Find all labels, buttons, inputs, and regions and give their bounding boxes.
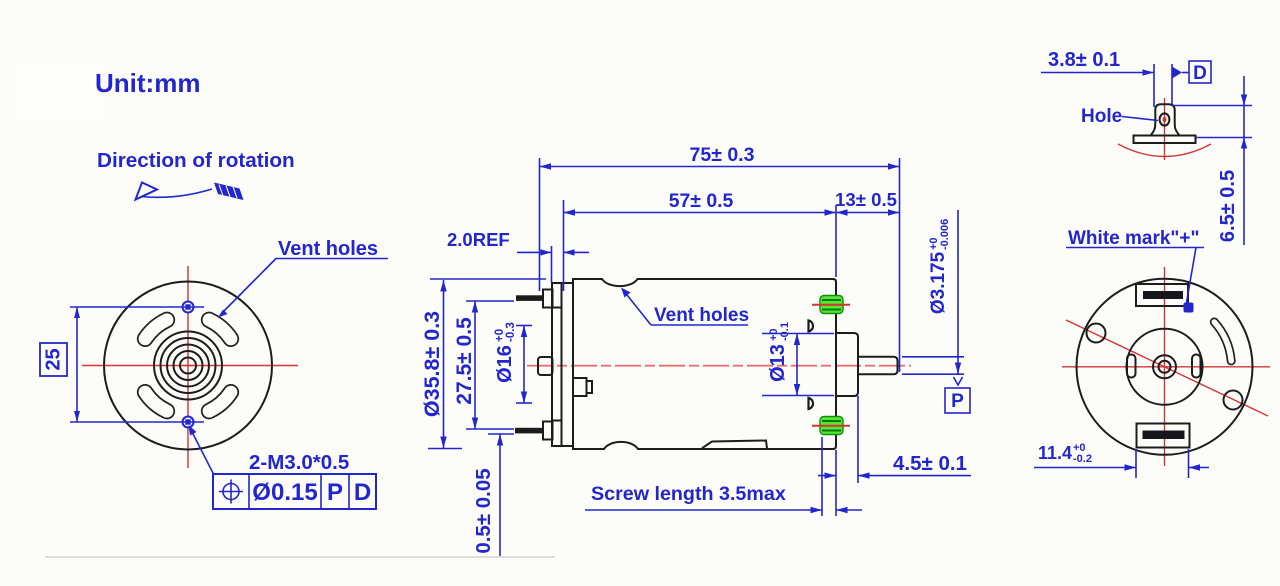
side view: left bearing bushing — [538, 357, 553, 375]
dimension 25: dimension line — [76, 307, 78, 422]
front view: screw hole top — [183, 302, 194, 313]
side view: D bump top — [809, 321, 814, 332]
svg-text:2-M3.0*0.5: 2-M3.0*0.5 — [249, 451, 349, 474]
svg-text:P: P — [327, 479, 343, 506]
svg-text:Vent holes: Vent holes — [278, 238, 378, 260]
rear view: top slot boss — [1136, 284, 1188, 306]
svg-text:75± 0.3: 75± 0.3 — [690, 144, 755, 166]
front view: concentric ring r14.5 — [174, 351, 203, 380]
side view: rear bearing boss — [836, 333, 858, 396]
side view: motor can body — [573, 279, 836, 449]
side view: green screw bottom — [820, 417, 843, 435]
dimension 25: boxed text — [40, 343, 67, 376]
svg-text:Ø16: Ø16 — [494, 345, 516, 383]
side view: red axis centerline — [527, 365, 911, 367]
svg-text:Screw length 3.5max: Screw length 3.5max — [591, 483, 786, 505]
side view: cap lower-right bump — [573, 378, 587, 396]
tab detail: red arc of can end — [1118, 144, 1211, 157]
svg-text:Hole: Hole — [1081, 106, 1122, 127]
tab detail: terminal tab outline — [1151, 104, 1180, 135]
svg-text:D: D — [354, 479, 371, 506]
dimension dia 13 boss — [762, 333, 834, 335]
side view: shaft — [858, 357, 898, 374]
svg-text:-0.2: -0.2 — [1073, 453, 1092, 465]
front view: concentric ring r21 — [167, 345, 209, 387]
svg-text:0.5± 0.05: 0.5± 0.05 — [472, 468, 495, 553]
front view: vent slot NE — [209, 320, 231, 339]
front view: outer case circle — [104, 282, 272, 450]
rotation arrow: curved arc — [141, 189, 212, 197]
svg-text:4.5± 0.1: 4.5± 0.1 — [893, 452, 967, 475]
rear view: shaft circles — [1153, 355, 1176, 378]
dimension dia 35.8+-0.3 — [430, 278, 546, 280]
svg-text:3.8± 0.1: 3.8± 0.1 — [1048, 49, 1120, 71]
rear view: end bell inner circle — [1127, 329, 1203, 405]
svg-text:P: P — [951, 391, 964, 412]
rear view: brush window right — [1192, 355, 1201, 378]
leader from bottom screw hole to tolerance frame — [190, 428, 214, 474]
front view: concentric ring r34 — [154, 332, 222, 400]
rotation arrow: open arrowhead — [136, 183, 158, 200]
side view: terminal top — [543, 290, 553, 308]
rear view: red horizontal centerline — [1062, 366, 1270, 368]
rear view: outer case circle — [1077, 279, 1253, 455]
front view: vent slot NW — [145, 320, 167, 339]
dimension 6.5+-0.5 — [1172, 105, 1252, 107]
svg-text:13± 0.5: 13± 0.5 — [835, 189, 897, 210]
svg-text:25: 25 — [43, 348, 65, 370]
rear view: screw head lower-right — [1224, 391, 1243, 410]
front view: red horizontal centerline — [82, 365, 298, 367]
rear view: red vertical centerline — [1164, 267, 1166, 466]
faint border line bottom — [45, 556, 555, 558]
dimension 0.5+-0.05 — [488, 433, 514, 435]
svg-text:Ø3.175: Ø3.175 — [928, 251, 949, 314]
rear view: arc vent slot — [1214, 322, 1231, 361]
tab detail: base plate — [1134, 136, 1196, 144]
svg-text:11.4: 11.4 — [1038, 443, 1072, 463]
side view: bottom vent trapezoid — [702, 441, 767, 449]
dimension 11.4 — [1135, 449, 1137, 478]
faint ghost box top-left — [15, 62, 100, 122]
svg-text:27.5± 0.5: 27.5± 0.5 — [453, 317, 476, 405]
svg-text:-0.3: -0.3 — [505, 322, 517, 342]
dimension 75+-0.3 — [539, 158, 541, 291]
tab detail: hole — [1160, 113, 1170, 125]
datum D flag — [1172, 67, 1182, 79]
rear view: brush window left — [1127, 355, 1136, 378]
svg-text:Ø13: Ø13 — [767, 344, 789, 382]
svg-text:White mark"+": White mark"+" — [1068, 228, 1200, 249]
dimension 13+-0.5 — [836, 212, 900, 214]
dimension dia 16 — [516, 325, 532, 327]
position symbol — [223, 484, 239, 500]
front view: center shaft hole — [180, 358, 196, 374]
svg-text:-0.1: -0.1 — [779, 322, 791, 341]
dimension 57+-0.5 — [563, 200, 565, 291]
front view: red cross in shaft hole — [183, 365, 193, 367]
svg-text:Unit:mm: Unit:mm — [95, 68, 200, 98]
side view: end cap — [552, 283, 573, 446]
svg-text:D: D — [1193, 63, 1207, 84]
feature control frame — [213, 474, 376, 509]
front view: vent slot SE — [209, 392, 231, 411]
tab detail: red centerline — [1164, 98, 1166, 160]
svg-text:Ø0.15: Ø0.15 — [252, 479, 317, 506]
svg-text:57± 0.5: 57± 0.5 — [669, 190, 734, 212]
rear view: white mark square — [1184, 303, 1194, 313]
svg-text:2.0REF: 2.0REF — [447, 229, 510, 250]
svg-text:6.5± 0.5: 6.5± 0.5 — [1217, 170, 1239, 242]
side view: terminal bottom — [543, 422, 553, 440]
dimension dia 3.175 shaft — [902, 356, 964, 358]
front view: screw hole bottom — [183, 417, 194, 428]
front view: vent slot SW — [145, 392, 167, 411]
dimension 25: extension line top — [70, 306, 204, 308]
rear view: bottom slot boss — [1137, 424, 1190, 448]
dimension 27.5+-0.5 — [466, 300, 514, 302]
svg-text:Direction of rotation: Direction of rotation — [97, 149, 295, 172]
side view: D bump bottom — [809, 398, 814, 409]
dimension 25: extension line bottom — [70, 421, 204, 423]
front view: red vertical centerline — [187, 266, 189, 468]
rear view: screw head upper-left — [1087, 324, 1106, 343]
rear view: red diagonal centerline — [1066, 320, 1268, 416]
svg-text:Ø35.8± 0.3: Ø35.8± 0.3 — [420, 311, 444, 417]
leader to vent slot — [221, 259, 276, 315]
svg-text:Vent holes: Vent holes — [654, 305, 749, 326]
front view: concentric ring r27.5 — [161, 338, 216, 393]
rotation arrow: hatched flag tail — [214, 183, 244, 201]
side view: green screw top — [820, 296, 843, 314]
svg-text:-0.006: -0.006 — [939, 219, 951, 250]
